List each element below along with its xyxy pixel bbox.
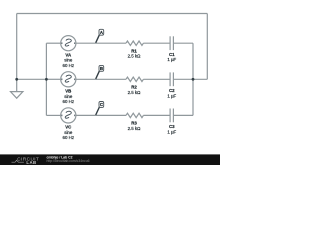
- svg-text:R1: R1: [131, 48, 137, 53]
- svg-text:60 Hz: 60 Hz: [63, 63, 74, 68]
- svg-text:1 µF: 1 µF: [167, 129, 176, 134]
- svg-text:B: B: [100, 66, 103, 71]
- svg-text:2.5 kΩ: 2.5 kΩ: [128, 90, 142, 95]
- svg-text:C: C: [100, 102, 103, 107]
- svg-text:LAB: LAB: [26, 160, 36, 165]
- svg-text:A: A: [100, 30, 103, 35]
- svg-text:60 Hz: 60 Hz: [63, 135, 74, 140]
- svg-text:2.5 kΩ: 2.5 kΩ: [128, 54, 142, 59]
- svg-text:1 µF: 1 µF: [167, 57, 176, 62]
- svg-text:1 µF: 1 µF: [167, 93, 176, 98]
- svg-text:R2: R2: [131, 85, 137, 90]
- svg-text:60 Hz: 60 Hz: [63, 99, 74, 104]
- svg-text:2.5 kΩ: 2.5 kΩ: [128, 126, 142, 131]
- svg-text:R3: R3: [131, 121, 137, 126]
- svg-text:http://circuitlab.com/c34ncu6: http://circuitlab.com/c34ncu6: [47, 159, 90, 163]
